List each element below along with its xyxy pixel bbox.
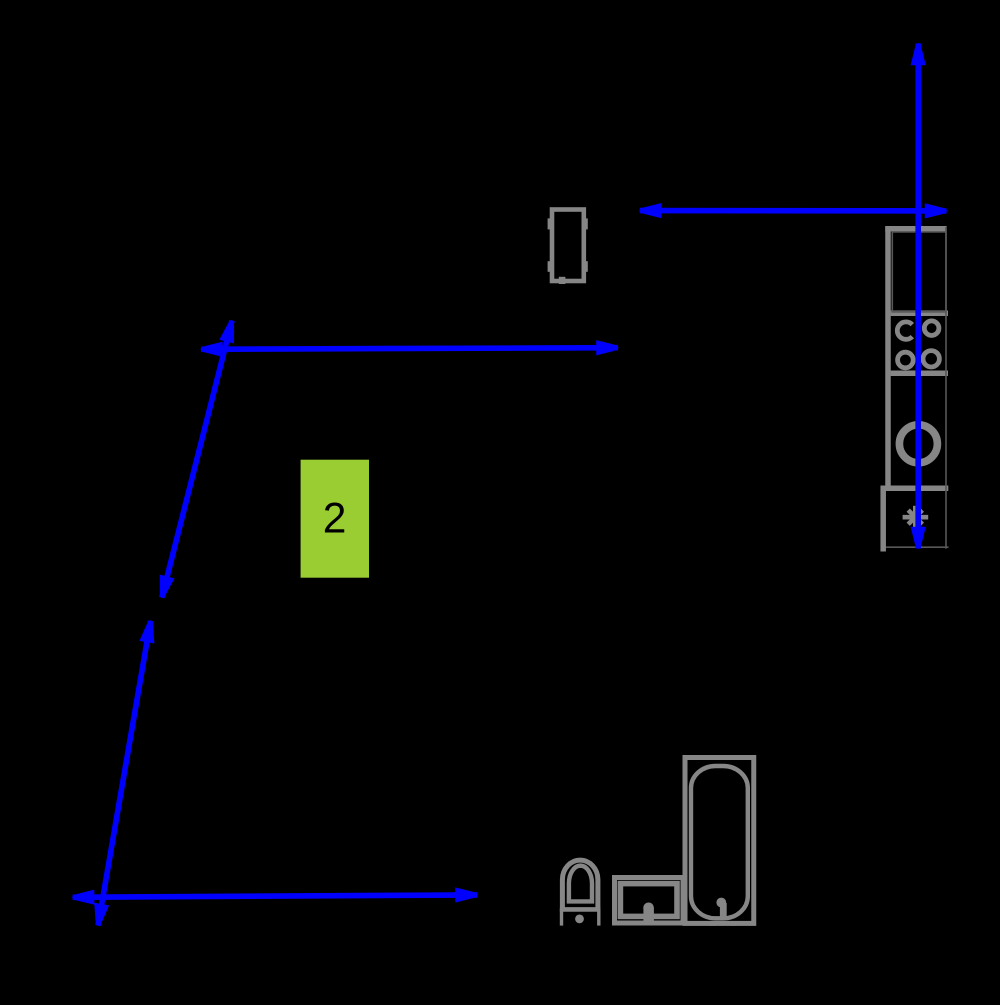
svg-text:2: 2 — [323, 496, 347, 543]
